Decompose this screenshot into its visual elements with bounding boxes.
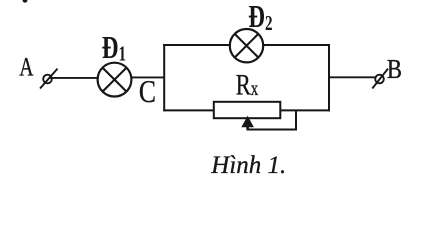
bottom branch wire	[163, 109, 330, 111]
right vertical wire	[328, 44, 330, 111]
wiper stem	[246, 126, 249, 130]
wiper arrow of rheostat	[241, 116, 254, 127]
svg-text:A: A	[19, 52, 34, 81]
wire lamp D1 to node C	[130, 76, 165, 78]
top branch wire	[163, 44, 330, 46]
svg-text:Hình 1.: Hình 1.	[210, 152, 286, 178]
rheostat Rx box	[214, 102, 280, 118]
left vertical wire (node C branch)	[163, 44, 165, 111]
terminal B	[372, 69, 388, 89]
stray ink speck top edge	[23, 0, 28, 3]
svg-text:B: B	[387, 55, 402, 84]
terminal A	[40, 69, 58, 89]
wiper wire vertical up to output	[295, 111, 297, 131]
svg-text:C: C	[139, 74, 156, 109]
wire to terminal B	[329, 76, 375, 78]
wiper wire horizontal	[247, 129, 297, 131]
lamp D1	[98, 63, 132, 97]
lamp D2	[230, 29, 263, 62]
wire A to lamp D1	[50, 77, 99, 79]
